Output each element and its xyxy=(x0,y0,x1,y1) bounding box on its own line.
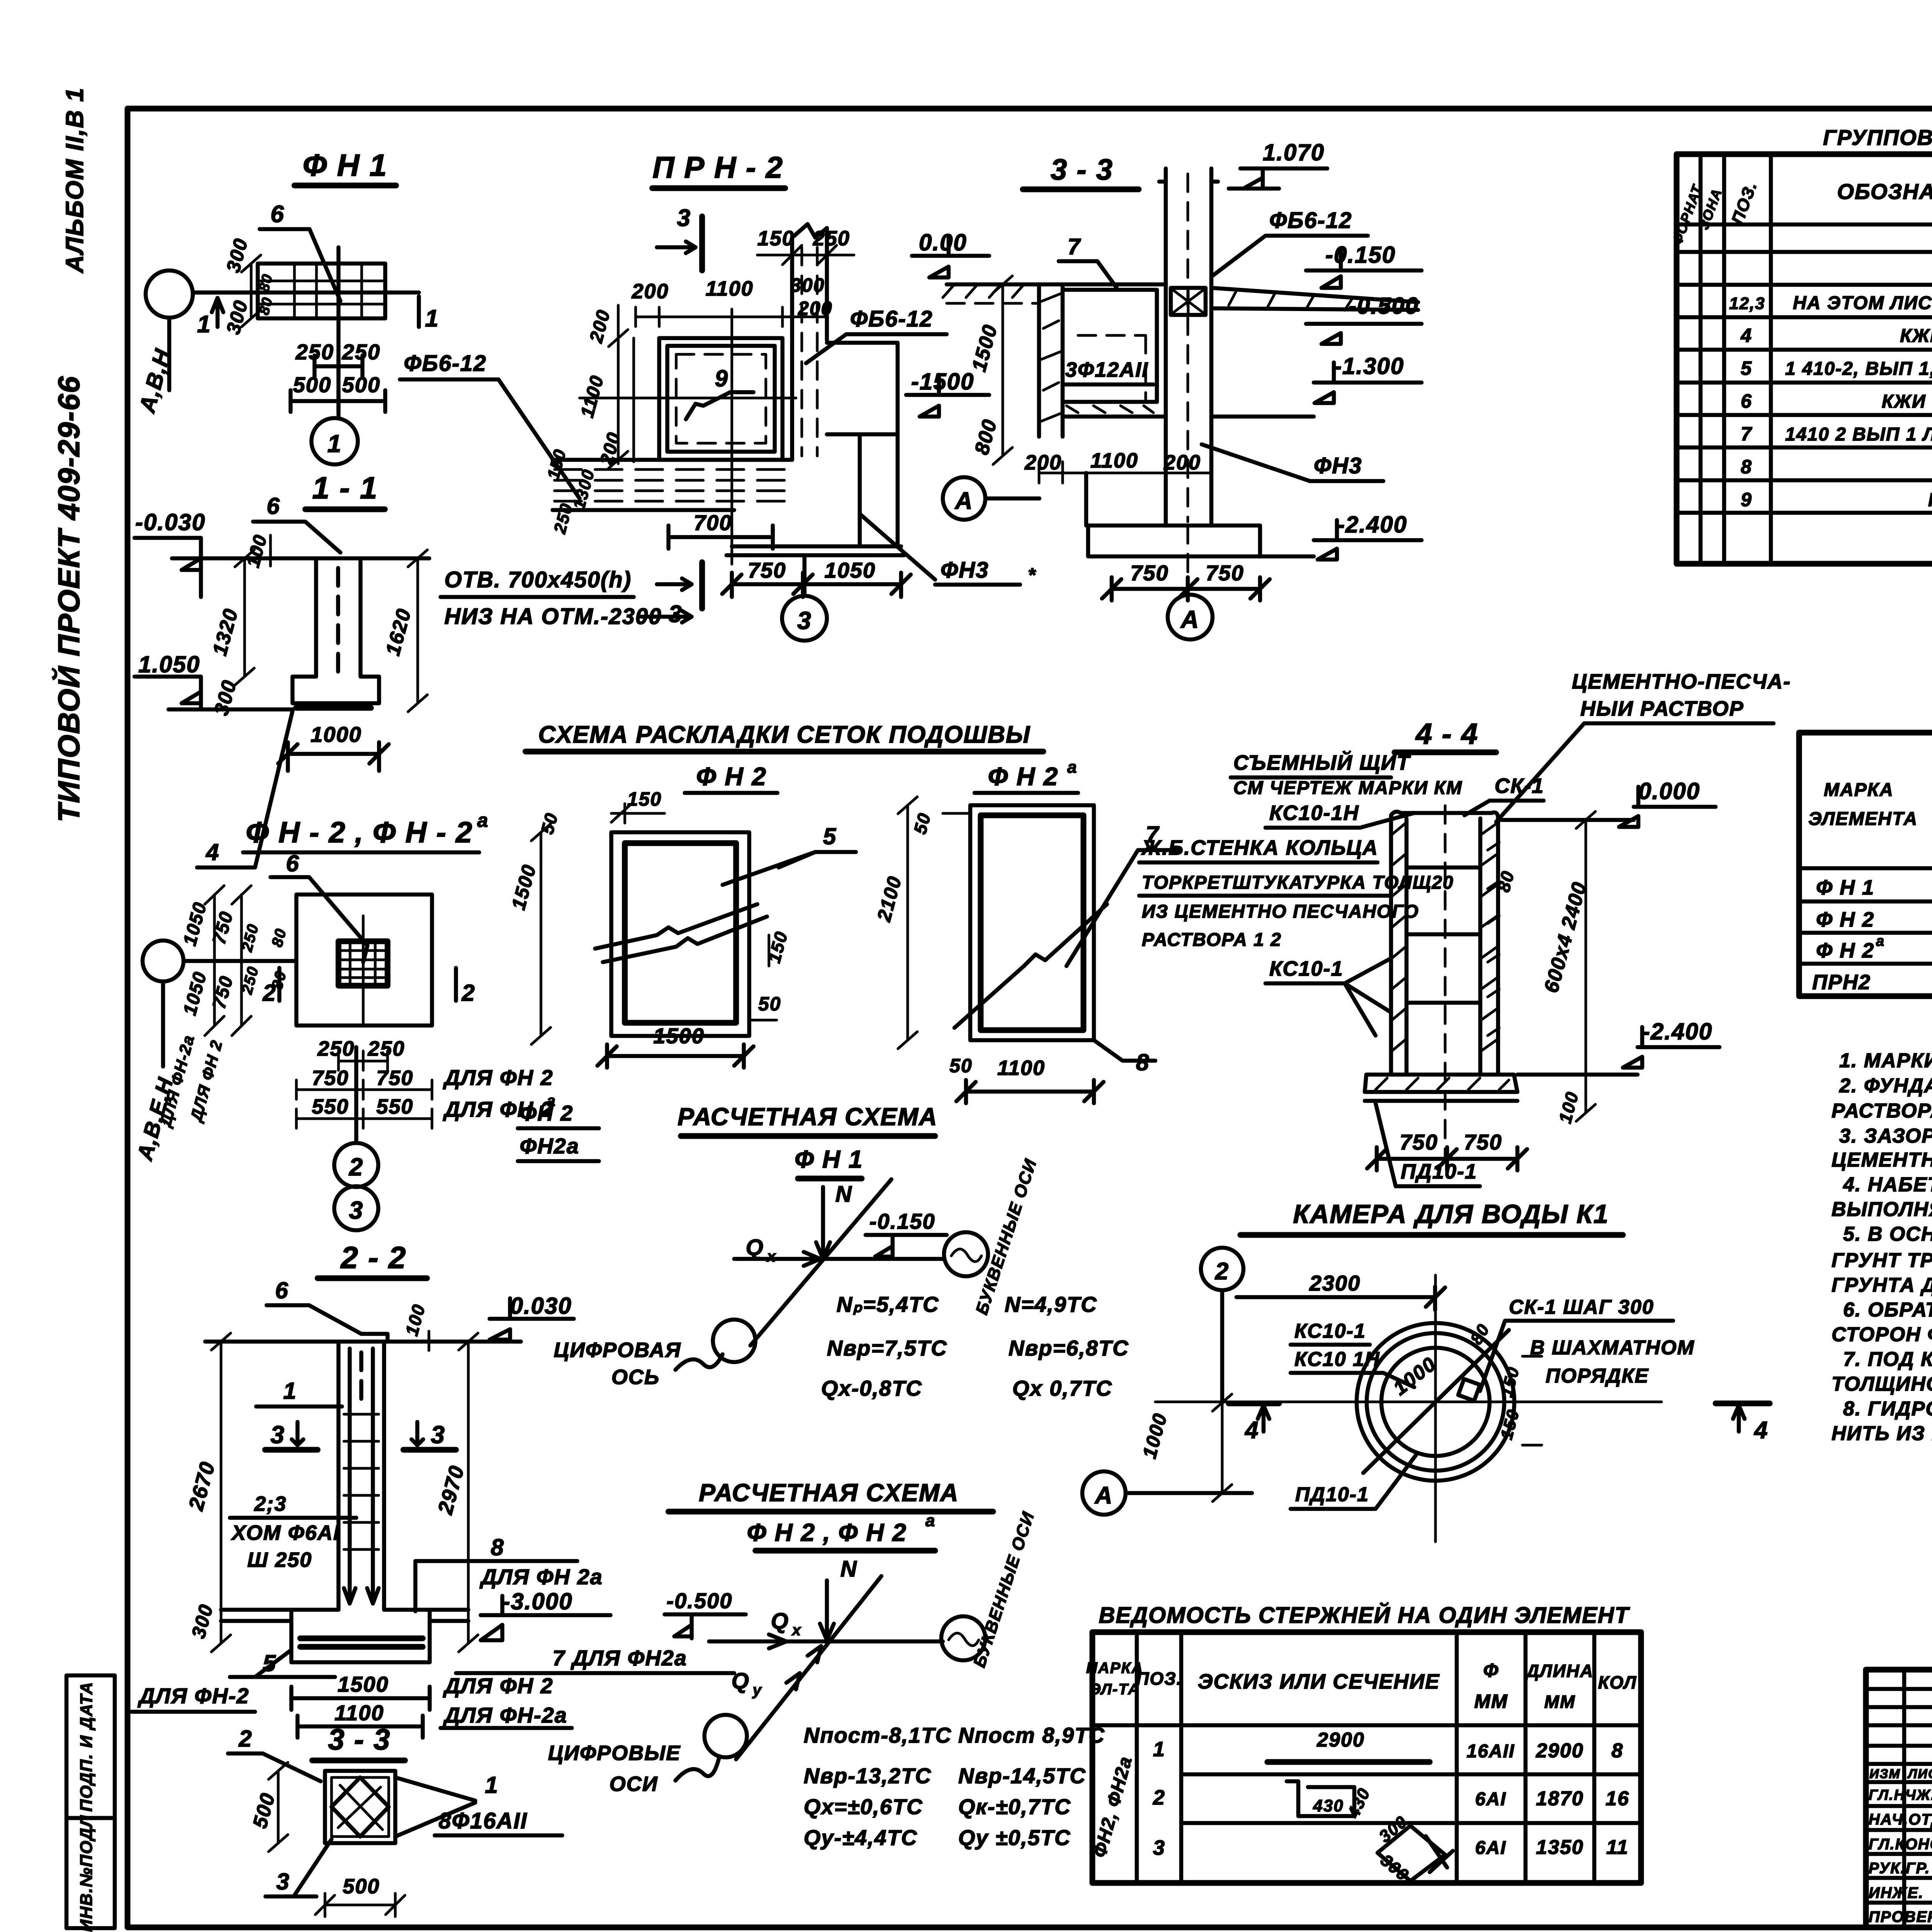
svg-text:-0.500: -0.500 xyxy=(1349,293,1419,319)
svg-text:1100: 1100 xyxy=(1090,449,1138,472)
svg-text:КС10-1: КС10-1 xyxy=(1269,957,1344,980)
left part verticals xyxy=(1904,1670,1932,1927)
svg-text:2: 2 xyxy=(349,1153,364,1181)
svg-text:200: 200 xyxy=(1024,451,1062,474)
svg-text:3: 3 xyxy=(276,1869,290,1895)
right stepped block xyxy=(827,343,898,546)
svg-text:Q: Q xyxy=(731,1668,750,1694)
svg-text:8: 8 xyxy=(491,1534,504,1560)
svg-text:КС10-1: КС10-1 xyxy=(1294,1320,1366,1342)
left margin: album label xyxy=(61,87,88,274)
svg-text:1500: 1500 xyxy=(653,1024,705,1048)
svg-text:3 - 3: 3 - 3 xyxy=(328,1723,391,1756)
svg-text:ГРУНТА ДОВЕСТИ ДО 1 6 ТС/М3: ГРУНТА ДОВЕСТИ ДО 1 6 ТС/М3 ПОСЛОЙНЫМ УП… xyxy=(1832,1273,1932,1296)
svg-text:-2.400: -2.400 xyxy=(1337,512,1407,537)
svg-text:2300: 2300 xyxy=(1309,1271,1361,1295)
svg-text:1500: 1500 xyxy=(338,1672,389,1696)
svg-text:4 - 4: 4 - 4 xyxy=(1415,718,1478,750)
svg-text:-1500: -1500 xyxy=(911,369,974,395)
svg-text:550: 550 xyxy=(376,1095,413,1118)
svg-text:9: 9 xyxy=(715,366,728,391)
svg-text:ОТВ. 700х450(h): ОТВ. 700х450(h) xyxy=(444,567,632,592)
svg-text:ФБ6-12: ФБ6-12 xyxy=(850,306,933,332)
svg-text:4: 4 xyxy=(1244,1417,1259,1444)
svg-text:Q: Q xyxy=(746,1235,764,1260)
mesh in base (4) xyxy=(296,705,371,711)
floor line left xyxy=(947,282,1166,287)
svg-text:х: х xyxy=(766,1248,776,1265)
outer square xyxy=(659,338,782,460)
svg-text:КЖИ - А 1, А 2: КЖИ - А 1, А 2 xyxy=(1882,391,1932,412)
svg-text:-1.300: -1.300 xyxy=(1334,353,1404,379)
svg-text:А: А xyxy=(954,488,973,514)
svg-text:ДЛЯ ФН 2: ДЛЯ ФН 2 xyxy=(443,1673,553,1698)
svg-text:N=4,9ТС: N=4,9ТС xyxy=(1005,1292,1097,1316)
base slab xyxy=(293,677,379,703)
svg-text:Ш 250: Ш 250 xyxy=(247,1548,312,1571)
svg-text:НИТЬ ИЗ ЦЕМЕНТНОГО РАСТВОРА: НИТЬ ИЗ ЦЕМЕНТНОГО РАСТВОРА СОСТАВА 1 2,… xyxy=(1832,1422,1932,1445)
svg-text:ФН3: ФН3 xyxy=(1314,453,1362,478)
ФМ-2, ФМ-2а plan group xyxy=(132,810,556,1163)
svg-text:Qу ±0,5ТС: Qу ±0,5ТС xyxy=(958,1825,1071,1850)
bottom slab xyxy=(726,546,904,555)
plan mesh rectangle xyxy=(258,264,385,318)
svg-text:0.000: 0.000 xyxy=(1638,778,1700,804)
svg-text:2. ФУНДАМЕНТНЫЕ БАЛКИ УКЛАДЫ: 2. ФУНДАМЕНТНЫЕ БАЛКИ УКЛАДЫВАТЬ НА ПОДЛ… xyxy=(1839,1075,1932,1097)
concentric circles xyxy=(1357,1323,1514,1481)
svg-text:ИНЖЕ.: ИНЖЕ. xyxy=(1869,1884,1924,1901)
base block xyxy=(221,1608,468,1612)
svg-text:ПД10-1: ПД10-1 xyxy=(1295,1483,1369,1506)
svg-text:4: 4 xyxy=(1753,1417,1768,1444)
floor right sloping slab xyxy=(1211,288,1418,310)
svg-text:ПРН2: ПРН2 xyxy=(1812,971,1871,994)
svg-text:N: N xyxy=(835,1182,852,1207)
brick wall above xyxy=(1166,168,1211,526)
svg-text:ЦЕМЕНТНЫМ РАСТВОРОМ, СОСТАВА: ЦЕМЕНТНЫМ РАСТВОРОМ, СОСТАВА 1 2, БОЛЕЕ … xyxy=(1832,1149,1932,1171)
svg-text:7 ДЛЯ ФН2а: 7 ДЛЯ ФН2а xyxy=(553,1646,687,1670)
svg-text:ФБ6-12: ФБ6-12 xyxy=(404,351,486,376)
title block xyxy=(1866,1670,1932,1927)
left revision rows xyxy=(1866,1689,1932,1903)
axis circle xyxy=(146,270,193,318)
Ведомость стержней table xyxy=(1086,1602,1641,1885)
horizontals xyxy=(1677,224,1932,513)
stirrups xyxy=(344,1414,379,1549)
svg-text:В ШАХМАТНОМ: В ШАХМАТНОМ xyxy=(1530,1337,1695,1359)
svg-text:ГЛ.НЧЖ.ЛР: ГЛ.НЧЖ.ЛР xyxy=(1869,1787,1932,1803)
beam cross-section at wall base xyxy=(1171,288,1206,315)
svg-text:N: N xyxy=(840,1556,857,1582)
svg-text:6: 6 xyxy=(286,850,299,876)
svg-text:750: 750 xyxy=(1400,1130,1438,1154)
svg-text:ФБ6-12: ФБ6-12 xyxy=(1269,208,1352,233)
left foundation wall hatched xyxy=(1039,284,1063,437)
svg-text:8. ГИДРОИЗОЛЯЦИЮ ПОД КИРПИЧН: 8. ГИДРОИЗОЛЯЦИЮ ПОД КИРПИЧНЫЕ СТЕНЫ НА … xyxy=(1843,1398,1932,1420)
svg-text:ХОМ Ф6АI: ХОМ Ф6АI xyxy=(231,1521,340,1544)
svg-text:1: 1 xyxy=(1153,1738,1165,1761)
svg-text:ДЛИНА: ДЛИНА xyxy=(1525,1661,1594,1681)
svg-text:1: 1 xyxy=(283,1378,297,1404)
svg-text:6АI: 6АI xyxy=(1475,1838,1507,1858)
svg-text:ГРУППОВАЯ СПЕЦИФИКАЦИЯ ДЛЯ МОН: ГРУППОВАЯ СПЕЦИФИКАЦИЯ ДЛЯ МОНОЛИТНЫХ ЭЛ… xyxy=(1823,125,1932,150)
svg-text:ФН 2: ФН 2 xyxy=(520,1101,573,1125)
svg-text:НЫИ РАСТВОР: НЫИ РАСТВОР xyxy=(1580,697,1744,720)
label ОТВ.700х450(h) НИЗ НА ОТМ.-2300 xyxy=(440,567,692,629)
svg-text:Ф Н 2: Ф Н 2 xyxy=(1816,908,1874,931)
svg-text:ФН3: ФН3 xyxy=(940,558,989,583)
svg-text:3: 3 xyxy=(797,607,812,634)
svg-text:СМ ЧЕРТЕЖ МАРКИ КМ: СМ ЧЕРТЕЖ МАРКИ КМ xyxy=(1233,778,1463,798)
svg-text:1870: 1870 xyxy=(1536,1787,1584,1810)
svg-text:Ф Н 2: Ф Н 2 xyxy=(988,762,1059,791)
svg-text:-0.150: -0.150 xyxy=(1325,242,1396,268)
plan rectangle xyxy=(296,895,432,1026)
svg-text:3: 3 xyxy=(270,1421,285,1449)
svg-text:1.050: 1.050 xyxy=(138,651,200,677)
svg-text:*: * xyxy=(1028,564,1036,586)
section 3-3 (top) group xyxy=(943,139,1422,639)
break lines xyxy=(595,904,757,949)
svg-text:а: а xyxy=(477,810,489,831)
ПРм-2 plan group xyxy=(400,150,1036,641)
svg-text:ЦИФРОВАЯ: ЦИФРОВАЯ xyxy=(554,1338,681,1362)
svg-text:ИЗ ЦЕМЕНТНО ПЕСЧАНОГО: ИЗ ЦЕМЕНТНО ПЕСЧАНОГО xyxy=(1142,901,1419,922)
цифровая ось circle xyxy=(713,1320,755,1362)
svg-text:4: 4 xyxy=(206,839,219,865)
axis circle xyxy=(143,940,184,981)
svg-text:Nвр=6,8ТС: Nвр=6,8ТС xyxy=(1009,1336,1129,1360)
notes text block xyxy=(1832,1049,1932,1445)
Расчетная схема ФМ1 xyxy=(518,1101,1129,1400)
rebar arrows inside xyxy=(344,1349,355,1604)
svg-text:Nвр=7,5ТС: Nвр=7,5ТС xyxy=(827,1336,947,1360)
svg-text:Q: Q xyxy=(771,1609,789,1634)
svg-text:Ф Н 1: Ф Н 1 xyxy=(303,148,387,182)
svg-text:750: 750 xyxy=(376,1066,413,1090)
svg-text:ВЫПОЛНЯТЬ ИЗ БЕТОНА М 150 .: ВЫПОЛНЯТЬ ИЗ БЕТОНА М 150 . xyxy=(1832,1198,1932,1221)
beams band under square xyxy=(554,469,791,501)
svg-text:КАМЕРА ДЛЯ ВОДЫ К1: КАМЕРА ДЛЯ ВОДЫ К1 xyxy=(1293,1199,1609,1229)
leader line into column xyxy=(363,946,367,962)
svg-text:2: 2 xyxy=(1215,1258,1229,1285)
axis bubble 2 xyxy=(1201,1248,1243,1290)
svg-text:ЭЛ-ТА: ЭЛ-ТА xyxy=(1090,1681,1140,1698)
svg-text:РАСЧЕТНАЯ СХЕМА: РАСЧЕТНАЯ СХЕМА xyxy=(699,1479,959,1507)
svg-text:НА ЭТОМ ЛИСТЕ: НА ЭТОМ ЛИСТЕ xyxy=(1793,293,1932,313)
svg-text:9: 9 xyxy=(1741,489,1752,510)
mesh rungs xyxy=(1406,867,1480,1003)
ticks on right wall xyxy=(1488,842,1499,1036)
ФН2 mesh square xyxy=(507,762,856,1068)
svg-text:6: 6 xyxy=(275,1277,289,1303)
svg-text:12,3: 12,3 xyxy=(1729,294,1765,313)
svg-text:ЭСКИЗ ИЛИ СЕЧЕНИЕ: ЭСКИЗ ИЛИ СЕЧЕНИЕ xyxy=(1198,1670,1440,1693)
svg-text:50: 50 xyxy=(758,993,781,1015)
inner formwork square xyxy=(667,346,775,452)
left margin: box Инв.№ подл. xyxy=(66,1815,115,1932)
svg-text:500: 500 xyxy=(343,1875,380,1898)
svg-text:550: 550 xyxy=(312,1095,349,1118)
svg-text:0.00: 0.00 xyxy=(919,230,967,255)
svg-text:1: 1 xyxy=(327,430,342,457)
svg-text:1: 1 xyxy=(197,311,211,338)
svg-text:ИЗМ: ИЗМ xyxy=(1869,1767,1901,1781)
svg-text:А: А xyxy=(1094,1482,1113,1509)
svg-text:1.070: 1.070 xyxy=(1263,139,1325,165)
ФМ1 plan group xyxy=(134,148,439,464)
svg-text:150: 150 xyxy=(627,788,662,810)
ФМ2а mesh rect xyxy=(873,758,1179,1103)
svg-text:ЛИСТ: ЛИСТ xyxy=(1907,1767,1932,1781)
svg-text:8: 8 xyxy=(1741,456,1752,478)
right circle (буквенные оси) xyxy=(944,1232,988,1276)
svg-text:Qх 0,7ТС: Qх 0,7ТС xyxy=(1012,1376,1112,1400)
verticals xyxy=(1701,154,1932,564)
hatch on plates xyxy=(1392,823,1406,1051)
svg-text:16: 16 xyxy=(1605,1787,1629,1810)
inner column mesh xyxy=(338,941,388,986)
svg-text:-0.150: -0.150 xyxy=(869,1209,935,1233)
svg-text:700: 700 xyxy=(694,510,732,535)
svg-text:5: 5 xyxy=(823,823,837,849)
axis bubble А xyxy=(1082,1471,1126,1515)
svg-text:1 410-2, ВЫП 1, Л 61: 1 410-2, ВЫП 1, Л 61 xyxy=(1785,359,1932,379)
svg-text:Nвр-14,5ТС: Nвр-14,5ТС xyxy=(958,1764,1086,1788)
svg-text:ДЛЯ ФН-2а: ДЛЯ ФН-2а xyxy=(443,1703,567,1727)
svg-text:1050: 1050 xyxy=(825,558,876,582)
svg-text:1100: 1100 xyxy=(706,277,753,300)
svg-text:КС10-1Н: КС10-1Н xyxy=(1269,801,1359,825)
svg-text:МАРКА: МАРКА xyxy=(1824,780,1894,800)
svg-text:а: а xyxy=(1067,758,1077,777)
svg-text:СТОРОН ФУНДАМЕНТОВ С ПОСЛОЙ: СТОРОН ФУНДАМЕНТОВ С ПОСЛОЙНЫМ ТРАМБОВАН… xyxy=(1832,1323,1932,1346)
svg-text:Qк-±0,7ТС: Qк-±0,7ТС xyxy=(958,1794,1071,1819)
svg-text:200: 200 xyxy=(1163,451,1201,474)
svg-text:2900: 2900 xyxy=(1536,1740,1584,1762)
svg-text:РАСЧЕТНАЯ СХЕМА: РАСЧЕТНАЯ СХЕМА xyxy=(678,1103,938,1131)
svg-text:3: 3 xyxy=(349,1196,364,1224)
svg-text:ММ: ММ xyxy=(1544,1692,1576,1712)
left margin: project label xyxy=(52,376,86,822)
svg-text:6. ОБРАТНУЮ ЗАСЫПКУ КОТЛОВАН: 6. ОБРАТНУЮ ЗАСЫПКУ КОТЛОВАНА ПРОИЗВОДИТ… xyxy=(1843,1299,1932,1321)
crosshair xyxy=(1155,1275,1662,1542)
svg-text:2: 2 xyxy=(238,1726,252,1752)
svg-text:ОСЬ: ОСЬ xyxy=(611,1366,660,1389)
svg-text:ММ: ММ xyxy=(1474,1690,1508,1712)
Выборка стали table xyxy=(1799,702,1932,996)
svg-text:у: у xyxy=(752,1682,762,1699)
svg-text:РАСТВОРА 1 2: РАСТВОРА 1 2 xyxy=(1142,930,1282,950)
svg-text:ДЛЯ ФН 2а: ДЛЯ ФН 2а xyxy=(480,1565,603,1589)
svg-text:Ф Н 2: Ф Н 2 xyxy=(1816,939,1874,962)
right channel xyxy=(792,238,827,460)
svg-text:3. ЗАЗОРЫ МЕЖДУ ТОРЦАМИ БАЛ: 3. ЗАЗОРЫ МЕЖДУ ТОРЦАМИ БАЛОК, ТОЛЩИНОЙ … xyxy=(1839,1124,1932,1147)
svg-text:СК-1 ШАГ 300: СК-1 ШАГ 300 xyxy=(1509,1296,1654,1318)
svg-text:Ф: Ф xyxy=(1483,1660,1499,1681)
svg-text:1: 1 xyxy=(425,305,439,332)
axis bubble А bottom xyxy=(1168,595,1213,639)
svg-text:1. МАРКИРОВОЧНУЮ СХЕМУ ПРИЕМ: 1. МАРКИРОВОЧНУЮ СХЕМУ ПРИЕМНОГО УСТРОЙС… xyxy=(1839,1049,1932,1072)
svg-text:ГРУНТ ТРАМБОВАТЬ ПОСЛОЙНО О: ГРУНТ ТРАМБОВАТЬ ПОСЛОЙНО ОБЪЕМНЫЙ ВЕС С… xyxy=(1832,1248,1932,1272)
svg-text:3: 3 xyxy=(431,1421,446,1449)
svg-text:КОЛ: КОЛ xyxy=(1598,1672,1637,1692)
axis bubbles 2 and 3 xyxy=(334,1047,378,1230)
svg-text:Ф Н - 2 , Ф Н - 2: Ф Н - 2 , Ф Н - 2 xyxy=(246,816,473,849)
Групповая спецификация table xyxy=(1669,125,1932,564)
wall centerline continuation xyxy=(1187,526,1189,593)
svg-text:3: 3 xyxy=(677,205,691,231)
svg-text:ТОРКРЕТШТУКАТУРКА ТОЛЩ20: ТОРКРЕТШТУКАТУРКА ТОЛЩ20 xyxy=(1142,872,1454,893)
svg-text:ТОЛЩИНОЙ 100 МЛ.: ТОЛЩИНОЙ 100 МЛ. xyxy=(1832,1372,1932,1395)
svg-text:РУК.ГР.: РУК.ГР. xyxy=(1869,1860,1930,1877)
top surface line xyxy=(172,556,429,561)
svg-text:5. В ОСНОВАНИИ ФУНДАМЕНТОВ: 5. В ОСНОВАНИИ ФУНДАМЕНТОВ И ФУНДАМЕНТНЫ… xyxy=(1843,1223,1932,1245)
4-4 left labels group xyxy=(1139,750,1463,1036)
axis bubble А left xyxy=(943,477,985,520)
svg-text:7: 7 xyxy=(1741,423,1752,445)
section mark 4 left xyxy=(1229,1401,1279,1406)
svg-text:1000: 1000 xyxy=(311,722,362,747)
svg-text:1100: 1100 xyxy=(335,1701,384,1725)
svg-text:а: а xyxy=(1876,933,1885,949)
svg-text:ПОДП. И ДАТА: ПОДП. И ДАТА xyxy=(77,1681,96,1811)
svg-text:СЪЕМНЫЙ ЩИТ: СЪЕМНЫЙ ЩИТ xyxy=(1233,750,1411,774)
svg-text:СК-1: СК-1 xyxy=(1495,774,1544,798)
title Схема раскладки сеток подошвы xyxy=(526,721,1043,752)
section mark 2 right xyxy=(454,968,458,1001)
svg-text:1100: 1100 xyxy=(997,1056,1045,1080)
svg-text:2 - 2: 2 - 2 xyxy=(340,1240,406,1275)
svg-text:16АII: 16АII xyxy=(1467,1741,1515,1762)
pit inner walls xyxy=(1063,290,1166,417)
base slab xyxy=(1088,526,1260,556)
rebar dashed box xyxy=(1078,335,1146,402)
svg-text:НИЗ НА ОТМ.-2300: НИЗ НА ОТМ.-2300 xyxy=(444,604,662,629)
svg-text:П Р Н - 2: П Р Н - 2 xyxy=(653,150,784,184)
svg-text:7: 7 xyxy=(1068,234,1081,259)
svg-text:ПОРЯДКЕ: ПОРЯДКЕ xyxy=(1546,1365,1649,1387)
svg-text:-3.000: -3.000 xyxy=(502,1588,573,1614)
svg-text:430: 430 xyxy=(1313,1796,1344,1815)
right circle xyxy=(941,1616,985,1660)
foundation column below xyxy=(1084,473,1088,526)
svg-text:Ф Н 2: Ф Н 2 xyxy=(696,762,767,791)
svg-text:500: 500 xyxy=(293,372,331,397)
svg-text:-0.500: -0.500 xyxy=(667,1588,733,1613)
column shaft xyxy=(316,558,361,677)
svg-text:Ж.Б.СТЕНКА КОЛЬЦА: Ж.Б.СТЕНКА КОЛЬЦА xyxy=(1141,836,1378,859)
svg-text:2: 2 xyxy=(461,980,475,1006)
axis bubble 3 xyxy=(803,555,807,596)
section mark 2 left xyxy=(277,968,282,1001)
svg-text:3: 3 xyxy=(668,601,682,628)
svg-text:3Ф12АII: 3Ф12АII xyxy=(1065,358,1148,381)
svg-text:х: х xyxy=(791,1622,801,1639)
diagonal radius with 1000 xyxy=(1363,1330,1509,1473)
svg-text:2;3: 2;3 xyxy=(254,1492,287,1515)
svg-text:ЭЛЕМЕНТА: ЭЛЕМЕНТА xyxy=(1808,809,1918,829)
svg-text:250: 250 xyxy=(317,1037,355,1060)
svg-text:200: 200 xyxy=(631,280,669,303)
svg-text:Qу-±4,4ТС: Qу-±4,4ТС xyxy=(804,1825,918,1850)
svg-text:ДЛЯ ФН 2: ДЛЯ ФН 2 xyxy=(443,1065,553,1090)
svg-text:1410 2 ВЫП 1 Л 23: 1410 2 ВЫП 1 Л 23 xyxy=(1785,424,1932,445)
svg-text:2900: 2900 xyxy=(1316,1729,1365,1751)
svg-text:750: 750 xyxy=(312,1066,349,1090)
svg-text:6АI: 6АI xyxy=(1475,1789,1507,1810)
svg-text:СХЕМА РАСКЛАДКИ СЕТОК ПОДОШВЫ: СХЕМА РАСКЛАДКИ СЕТОК ПОДОШВЫ xyxy=(538,721,1031,748)
svg-text:КЖИ-МН3: КЖИ-МН3 xyxy=(1928,490,1932,510)
svg-text:ЦИФРОВЫЕ: ЦИФРОВЫЕ xyxy=(548,1742,680,1765)
svg-text:3 - 3: 3 - 3 xyxy=(1051,153,1113,186)
svg-text:Ф Н 1: Ф Н 1 xyxy=(794,1145,863,1173)
svg-text:РАСТВОРА СОСТАВА 1 2, ТОЛЩИ: РАСТВОРА СОСТАВА 1 2, ТОЛЩИНОЙ 20 ММ. xyxy=(1832,1099,1932,1122)
svg-text:ПОЗ.: ПОЗ. xyxy=(1136,1668,1182,1689)
svg-text:1: 1 xyxy=(485,1772,498,1798)
top surface xyxy=(205,1340,521,1344)
svg-text:6: 6 xyxy=(267,493,280,519)
svg-text:КС10 1Н: КС10 1Н xyxy=(1294,1348,1380,1371)
wall: outer plates and cavity xyxy=(1391,812,1498,1075)
small square marker on ring xyxy=(1458,1379,1480,1401)
svg-text:0.030: 0.030 xyxy=(510,1293,572,1319)
svg-text:4. НАБЕТОНКИ НА ФУНДАМЕНТАХ: 4. НАБЕТОНКИ НА ФУНДАМЕНТАХ И БЕТОННЫЕ У… xyxy=(1843,1173,1932,1196)
column shaft xyxy=(338,1342,384,1610)
section 2-2 group xyxy=(131,1240,734,1738)
svg-text:Ф Н 1: Ф Н 1 xyxy=(1816,876,1874,899)
svg-text:750: 750 xyxy=(748,558,786,582)
svg-text:Qх-0,8ТС: Qх-0,8ТС xyxy=(821,1376,922,1400)
svg-text:ОБОЗНАЧЕНИЕ: ОБОЗНАЧЕНИЕ xyxy=(1837,179,1932,204)
svg-text:КЖИ С13 С14 С15: КЖИ С13 С14 С15 xyxy=(1900,326,1932,346)
svg-text:500: 500 xyxy=(342,372,380,397)
svg-text:750: 750 xyxy=(1464,1130,1502,1154)
svg-text:-0.030: -0.030 xyxy=(135,509,206,535)
Камера для воды К1 xyxy=(1082,1199,1770,1542)
svg-text:Qх=±0,6ТС: Qх=±0,6ТС xyxy=(804,1794,923,1819)
svg-text:3: 3 xyxy=(1153,1836,1165,1859)
svg-text:7. ПОД КАНАЛАМИ ИЗ СБОРНЫХ: 7. ПОД КАНАЛАМИ ИЗ СБОРНЫХ ЛОТКОВ ВЫПОЛН… xyxy=(1843,1348,1932,1371)
svg-text:1 - 1: 1 - 1 xyxy=(312,471,378,505)
svg-text:ВЕДОМОСТЬ СТЕРЖНЕЙ НА ОДИН ЭЛЕ: ВЕДОМОСТЬ СТЕРЖНЕЙ НА ОДИН ЭЛЕМЕНТ xyxy=(1099,1602,1630,1628)
svg-text:АЛЬБОМ II,В 1: АЛЬБОМ II,В 1 xyxy=(61,87,88,274)
svg-text:ГЛ.КОНСТ: ГЛ.КОНСТ xyxy=(1869,1836,1932,1853)
section 3-3 square (bottom left) xyxy=(228,1723,562,1917)
section mark 4 right xyxy=(1716,1401,1770,1406)
svg-text:Nпост-8,1ТС: Nпост-8,1ТС xyxy=(804,1723,952,1747)
svg-text:Ф Н 2 , Ф Н 2: Ф Н 2 , Ф Н 2 xyxy=(747,1519,907,1546)
horizontals xyxy=(1799,757,1932,868)
svg-text:8Ф16АII: 8Ф16АII xyxy=(439,1808,527,1833)
svg-text:Nₚ=5,4ТС: Nₚ=5,4ТС xyxy=(837,1292,939,1316)
svg-text:ОСИ: ОСИ xyxy=(609,1772,658,1796)
axis bubble 1 below xyxy=(311,418,358,464)
svg-text:Nпост 8,9ТС: Nпост 8,9ТС xyxy=(958,1723,1105,1747)
break line xyxy=(954,904,1107,1028)
svg-text:а: а xyxy=(925,1511,935,1530)
svg-text:750: 750 xyxy=(1206,561,1244,585)
svg-text:НАЧ.ОТД.: НАЧ.ОТД. xyxy=(1869,1811,1932,1828)
svg-text:4: 4 xyxy=(1740,325,1752,346)
left bottom circle xyxy=(704,1715,747,1757)
section 4-4 group xyxy=(1365,670,1791,1186)
svg-text:6: 6 xyxy=(1741,390,1752,412)
svg-text:50: 50 xyxy=(949,1055,973,1077)
svg-text:6: 6 xyxy=(270,201,284,228)
svg-text:НАРКА: НАРКА xyxy=(1086,1660,1143,1677)
svg-text:ИНВ.№ПОДЛ: ИНВ.№ПОДЛ xyxy=(77,1815,96,1932)
